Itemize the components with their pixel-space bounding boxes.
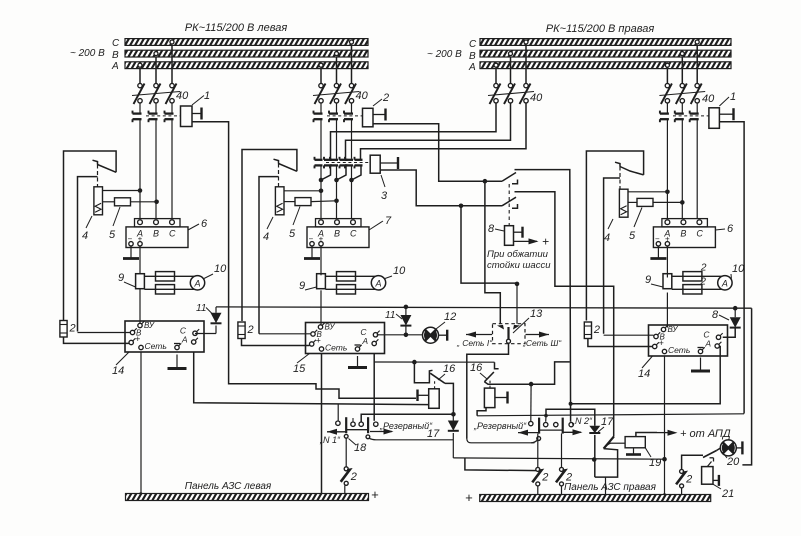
terminal + of box 14 xyxy=(653,344,657,348)
dashed armature link 16 left xyxy=(434,381,436,389)
stand switch 8 top xyxy=(502,173,516,182)
shunt loop wires xyxy=(325,276,383,289)
arrow Резервный left (right switch) xyxy=(518,432,538,434)
riser circle3 to lamp rail xyxy=(361,414,452,422)
dashed linkage of contactor 3 xyxy=(326,162,370,164)
node: relay4/phaseA junction xyxy=(138,188,143,193)
svg-text:„ Сеть I“: „ Сеть I“ xyxy=(456,338,493,348)
wire switch to lamp 20 xyxy=(717,448,721,451)
terminals A B C of box 6 xyxy=(665,220,670,225)
resistor 5 left xyxy=(103,201,115,203)
main box 6 xyxy=(653,227,715,248)
main box 7 xyxy=(307,227,369,248)
svg-text:11: 11 xyxy=(196,303,206,314)
breaker linkage bar xyxy=(132,92,180,96)
label 4 (right) xyxy=(608,219,613,229)
wire fuse9R to ВУ box14R xyxy=(666,293,668,328)
svg-text:+: + xyxy=(542,235,549,249)
wire А box15 down to switch 18 and relay 16 xyxy=(373,354,375,421)
svg-text:5: 5 xyxy=(289,228,296,240)
node diode11C on rail xyxy=(404,305,409,310)
label 10 with pointer xyxy=(385,276,392,279)
tap wire phase C from bus xyxy=(695,40,699,44)
plug of lamp 12 xyxy=(439,334,448,336)
svg-text:11: 11 xyxy=(385,310,395,321)
fuse top (2A) xyxy=(683,272,702,281)
label 4 (left) xyxy=(86,216,92,228)
svg-text:А: А xyxy=(374,278,381,288)
transformer box 6: terminal strip xyxy=(662,219,708,227)
wire Сеть box14-left down to panel xyxy=(140,352,142,493)
node relay4R junction xyxy=(665,190,670,195)
wire loop bottom and right side xyxy=(595,449,618,478)
wire L-contact to relay 21 xyxy=(707,462,711,467)
plug symbol of connector 1 right xyxy=(719,113,733,115)
relay 21 xyxy=(702,467,713,485)
bus bar A left (hatched) xyxy=(125,62,368,69)
wire blade to relay 19 xyxy=(610,442,625,444)
svg-text:10: 10 xyxy=(732,263,745,275)
svg-text:~ 200 В: ~ 200 В xyxy=(427,49,462,60)
pivot feed wire 16 left xyxy=(414,362,432,383)
label 10 with pointer xyxy=(204,274,213,279)
svg-text:13: 13 xyxy=(530,308,543,320)
wire loop left vertical below diode 17R xyxy=(594,435,596,477)
tap wire phase C from bus xyxy=(524,40,528,44)
relay 8 (При обжатии) xyxy=(505,226,514,246)
toggle 2 far right xyxy=(680,469,684,473)
label 9 with pointer xyxy=(124,282,136,287)
node diode 8 on rail xyxy=(733,306,738,311)
svg-text:16: 16 xyxy=(470,362,483,374)
label 10 with pointer xyxy=(730,274,732,279)
wire blade 16R to selector wire xyxy=(484,362,569,384)
ground below − of box 14 left xyxy=(176,355,178,369)
wire relay4C to phase junction xyxy=(284,190,321,192)
svg-text:2: 2 xyxy=(247,324,254,336)
contactor coil box 3 xyxy=(370,155,380,173)
node on reserve rail xyxy=(544,414,548,418)
ground below box 7 xyxy=(311,246,313,259)
riser circle2R to reserve rail xyxy=(545,416,547,422)
node Сеть14R at panel xyxy=(662,493,666,497)
terminal − of box 14 xyxy=(698,347,704,349)
terminal ВУ of box 14 xyxy=(661,327,665,331)
switch S center unit xyxy=(279,164,297,172)
tap wire phase B from bus xyxy=(154,52,158,56)
frame wire left unit xyxy=(64,151,117,321)
wire to В terminal box14 left xyxy=(78,332,131,334)
svg-text:4: 4 xyxy=(82,230,88,242)
svg-text:ВУ: ВУ xyxy=(325,323,336,332)
signal lamp 20 xyxy=(720,440,736,456)
tap wire phase A from bus xyxy=(494,63,498,67)
svg-text:А: А xyxy=(193,278,200,288)
node on circle4R riser xyxy=(569,402,573,406)
wire + of box6R down to fuse block 9 right xyxy=(666,246,668,278)
contactor contacts L1 (3 phases) xyxy=(139,103,141,114)
svg-text:4: 4 xyxy=(604,232,610,244)
dashed linkage L1 to connector 1 xyxy=(146,115,181,117)
terminal Сеть of box 14 xyxy=(139,345,143,349)
arrow + от АПД xyxy=(636,433,657,437)
label 19 xyxy=(645,448,651,457)
svg-text:Сеть: Сеть xyxy=(325,343,347,353)
selector crossbar xyxy=(346,429,368,431)
main box 6 xyxy=(126,227,188,248)
selector switch contacts (circles) xyxy=(529,421,533,425)
svg-text:10: 10 xyxy=(214,263,227,275)
node resistor5R junction xyxy=(680,200,685,205)
transformer box 7: terminal strip xyxy=(316,219,362,227)
svg-text:+ от АПД: + от АПД xyxy=(680,428,731,440)
bus bar A right (hatched) xyxy=(480,62,731,69)
label 3 xyxy=(381,175,385,187)
svg-text:10: 10 xyxy=(393,265,406,277)
tap wire phase C from bus xyxy=(170,40,174,44)
svg-text:4: 4 xyxy=(263,231,269,243)
ground below box 6 xyxy=(130,246,132,259)
tap wire phase B from bus xyxy=(335,52,339,56)
terminal ВУ of box 15 xyxy=(318,325,322,329)
riser circle2 xyxy=(352,418,354,422)
svg-text:2: 2 xyxy=(69,323,76,335)
label 6 with pointer xyxy=(188,224,199,230)
fuse block 9 xyxy=(317,274,326,289)
svg-text:1: 1 xyxy=(204,90,210,102)
resistor 5 center xyxy=(284,201,295,203)
node: resistor5/phaseB junction xyxy=(154,200,159,205)
bridge to diode 17 right xyxy=(546,409,595,426)
dashed linkage R2 to connector 1 right xyxy=(673,115,709,117)
svg-text:С: С xyxy=(169,229,176,239)
node resistor5C junction xyxy=(334,199,339,204)
svg-text:А: А xyxy=(468,62,476,73)
fuse bottom (2A) xyxy=(337,285,356,294)
relay 4 center xyxy=(275,187,284,215)
fuse 2 (panel feed) xyxy=(238,322,245,339)
svg-text:40: 40 xyxy=(530,92,543,104)
terminal В of box 14 xyxy=(654,334,658,338)
ground below − of box 15 xyxy=(357,356,359,368)
wire С box14-left to diode 11 xyxy=(195,333,216,335)
toggle blade of Сеть III switch xyxy=(604,437,614,449)
label 9 with pointer xyxy=(651,284,663,287)
svg-text:21: 21 xyxy=(721,488,734,500)
switch S right unit xyxy=(620,167,644,175)
svg-text:С: С xyxy=(350,229,357,239)
hook contact below bar1 of switch 18 right xyxy=(537,437,541,441)
fuse 2 (panel feed) xyxy=(60,321,67,338)
svg-text:В: В xyxy=(469,51,476,62)
pivot feed riser 16 right xyxy=(495,362,499,369)
wire resistor5 to phase B junction xyxy=(131,201,157,203)
svg-text:2: 2 xyxy=(541,471,548,483)
wire loop to right panel xyxy=(605,477,607,494)
label 14 with pointer xyxy=(116,352,129,365)
svg-text:5: 5 xyxy=(109,229,116,241)
wire fuse2 to + terminal box14 left xyxy=(64,337,130,343)
arrow Сеть III (right) xyxy=(526,334,550,336)
fuse top (2A) xyxy=(156,272,175,281)
svg-text:А: А xyxy=(181,335,188,345)
svg-text:6: 6 xyxy=(727,223,734,235)
svg-text:„N 1“: „N 1“ xyxy=(319,435,341,445)
arrow N1 left xyxy=(327,431,347,433)
tap wire phase C from bus xyxy=(350,40,354,44)
wire А box14-left down and right to switch 18 and relay 16L coil xyxy=(194,352,429,405)
ground below box 6 xyxy=(657,246,659,259)
svg-text:С: С xyxy=(696,229,703,239)
transformer box 6: terminal strip xyxy=(135,219,181,227)
reserve wire from diode 17L to Сеть riser right xyxy=(453,458,664,459)
bus bar C left (hatched) xyxy=(125,39,368,46)
contactor contacts R2 xyxy=(666,103,668,114)
node relay16L on rail xyxy=(451,412,456,417)
diode 17 right xyxy=(589,426,600,433)
breaker linkage bar xyxy=(659,92,705,96)
svg-text:В: В xyxy=(334,229,340,239)
svg-text:+: + xyxy=(659,338,664,348)
node reserve wire on loop xyxy=(592,457,597,462)
crossover phase wires from right РК to contactor 3 xyxy=(331,103,497,160)
branch to toggle 2 right#1 xyxy=(465,458,539,471)
label 5 (center) xyxy=(293,207,300,226)
stand switch 8 bottom xyxy=(502,197,516,206)
svg-text:Сеть: Сеть xyxy=(668,345,690,355)
plug of relay 8 xyxy=(514,231,523,233)
svg-text:С: С xyxy=(112,38,120,49)
svg-text:А: А xyxy=(111,61,119,72)
hook contact below bar1 of switch 18 left xyxy=(344,434,348,438)
fuse bottom (2A) xyxy=(156,285,175,294)
wire С box14R up through diode 8 xyxy=(723,328,736,337)
wire switch pole to В terminal riser xyxy=(78,177,98,332)
node diode11C xyxy=(404,333,409,338)
svg-text:40: 40 xyxy=(702,93,715,105)
ground below − of box 14 right xyxy=(700,358,702,372)
voltage regulator box 14 xyxy=(649,325,728,356)
selector switch 13 (dashed box) xyxy=(493,324,526,344)
ammeter A xyxy=(190,276,204,290)
wire from connector 1 right to +27V rail xyxy=(719,122,744,414)
terminal ВУ of box 14 xyxy=(138,323,142,327)
bus bar B left (hatched) xyxy=(125,50,368,57)
wire + of box7 down to fuse block 9 center xyxy=(320,246,322,275)
fuse block 9 xyxy=(136,274,145,289)
svg-text:14: 14 xyxy=(112,365,124,377)
fuse 2 (panel feed) xyxy=(584,322,591,339)
label 2 (connector center) xyxy=(373,99,382,106)
breaker linkage bar xyxy=(313,92,360,96)
node: relay 16 left pivot feed xyxy=(412,360,417,365)
wire switch8bottom to right drop xyxy=(515,192,614,437)
terminal Сеть of box 15 xyxy=(319,347,323,351)
svg-text:6: 6 xyxy=(201,218,208,230)
wire С box15 to lamp 12 xyxy=(377,334,423,336)
label 21 xyxy=(713,484,721,489)
ground below relay 19 xyxy=(633,448,635,455)
label 1 (right) xyxy=(719,97,729,106)
svg-text:2: 2 xyxy=(593,324,600,336)
diode 11 left xyxy=(211,313,222,324)
wire blade 16L to +rail node xyxy=(445,383,453,414)
wire resistor5C to phase junction xyxy=(311,200,337,203)
wire switch8top to right drop and circle4 of 18R xyxy=(515,170,571,422)
tap wire phase A from bus xyxy=(665,63,669,67)
label 4 (center) xyxy=(267,217,273,229)
svg-text:18: 18 xyxy=(354,442,367,454)
terminals A B C of box 6 xyxy=(138,220,143,225)
svg-text:8: 8 xyxy=(488,223,495,235)
svg-text:+: + xyxy=(316,336,321,346)
label 6 with pointer xyxy=(715,229,725,230)
bus bar C right (hatched) xyxy=(480,39,731,46)
wire to В box14R xyxy=(604,334,654,336)
wire fuse9 left to ВУ terminal box 14 xyxy=(139,289,141,324)
armature blade 16 right xyxy=(484,372,494,382)
reserve rail to lamp20 riser (right) xyxy=(477,414,744,416)
relay 4 right xyxy=(619,189,628,217)
svg-text:стойки шасси: стойки шасси xyxy=(487,260,551,271)
svg-text:В: В xyxy=(680,229,686,239)
plug symbol of connector 2 xyxy=(373,114,386,116)
terminal + of box 15 xyxy=(310,342,314,346)
panel АЗС правая (hatched bar) xyxy=(480,495,711,502)
connector box 1 left xyxy=(181,106,193,127)
switch S left unit xyxy=(98,165,117,173)
label 7 with pointer xyxy=(369,221,383,230)
armature blade 16 left xyxy=(430,373,445,383)
selector switch bars xyxy=(538,418,540,434)
svg-text:+: + xyxy=(465,490,473,505)
tap wire phase B from bus xyxy=(509,52,513,56)
svg-text:+: + xyxy=(371,487,379,502)
svg-text:А: А xyxy=(721,278,728,288)
svg-text:~ 200 В: ~ 200 В xyxy=(70,48,105,59)
shunt loop wires xyxy=(672,276,730,289)
svg-text:2: 2 xyxy=(685,473,692,485)
label 9 with pointer xyxy=(305,287,317,290)
arrow Резервный right xyxy=(370,431,392,433)
plug of relay 16 right xyxy=(495,397,507,399)
riser from circle1 of switch18R xyxy=(530,384,532,422)
svg-text:7: 7 xyxy=(385,215,392,227)
svg-text:2: 2 xyxy=(382,92,389,104)
branch wire А15 to relays 16 xyxy=(374,361,494,363)
svg-text:„Сеть Ш“: „Сеть Ш“ xyxy=(522,338,562,348)
switch of lamp 20 xyxy=(703,451,717,458)
wire from switch 13 pivot to reserve bus xyxy=(467,343,509,438)
wire fuse2R to + box14R xyxy=(588,339,653,347)
connector box 1 right xyxy=(709,108,720,129)
node at 484.9/181 xyxy=(483,179,488,184)
hook contact below bar2 of switch 18 left xyxy=(366,435,370,439)
relay 4 left xyxy=(94,187,103,215)
selector switch bars xyxy=(345,417,347,433)
terminal − of box 15 xyxy=(355,344,361,346)
selector crossbar xyxy=(539,429,563,431)
wire + of box6 down to fuse block 9 left xyxy=(139,246,141,274)
plug of relay 21 xyxy=(713,479,719,481)
svg-text:Панель АЗС левая: Панель АЗС левая xyxy=(185,481,272,492)
diode 8 (right) xyxy=(730,317,741,327)
svg-text:При обжатии: При обжатии xyxy=(487,249,549,260)
svg-text:40: 40 xyxy=(356,90,369,102)
label 5 (left) xyxy=(113,207,120,226)
terminal − of box 14 xyxy=(174,343,180,345)
svg-text:5: 5 xyxy=(629,230,636,242)
wire to В box15 xyxy=(259,333,311,335)
wire fuse9C to ВУ box15 xyxy=(320,290,322,325)
terminal Сеть of box 14 xyxy=(662,349,666,353)
svg-text:Сеть: Сеть xyxy=(145,341,167,351)
svg-text:1: 1 xyxy=(730,91,736,103)
svg-text:„Резервный“: „Резервный“ xyxy=(379,421,433,431)
wire left drop from node 484.9/181 down xyxy=(485,181,500,324)
arrow + output of relay 8 xyxy=(508,241,510,245)
terminal + of box 14 xyxy=(129,340,133,344)
wire from node 461/206 down to switch13 right contact xyxy=(461,206,517,283)
connector box 2 (center) xyxy=(363,108,374,127)
wire Сеть box15 down to panel xyxy=(321,354,323,494)
wire switch pole to В riser (center) xyxy=(259,177,279,334)
toggle switch 2 on left panel xyxy=(345,438,347,467)
+27V rail riser from diode 11 left xyxy=(215,307,217,313)
wire toggle to lamp switch xyxy=(682,455,703,469)
wire from box 3 to stand switch 8 (bottom) xyxy=(380,170,502,206)
svg-text:40: 40 xyxy=(176,90,189,102)
wire coil 16R bottom to reserve rail xyxy=(477,408,486,416)
fuse block 9 xyxy=(663,274,672,289)
contactor contacts L2 (3 phases) xyxy=(320,103,322,114)
svg-text:8: 8 xyxy=(712,309,719,321)
shunt loop wires xyxy=(144,276,202,289)
svg-text:19: 19 xyxy=(649,457,661,469)
diode 11 center xyxy=(405,326,407,335)
diode 17 left xyxy=(452,414,454,420)
svg-text:17: 17 xyxy=(601,416,614,428)
node: circle1R riser on selector wire xyxy=(529,382,534,387)
label 14 with pointer xyxy=(642,356,653,368)
svg-text:14: 14 xyxy=(638,368,650,380)
+27V DC rail (long horizontal) xyxy=(216,307,752,308)
voltage regulator box 14 xyxy=(125,321,204,352)
plug of relay 16 left xyxy=(419,394,429,396)
tap wire phase A from bus xyxy=(138,63,142,67)
svg-text:20: 20 xyxy=(726,456,740,468)
wire relay4 to phase A junction xyxy=(103,190,141,192)
label 5 (right) xyxy=(634,208,642,228)
svg-text:Панель АЗС правая: Панель АЗС правая xyxy=(564,482,657,493)
svg-text:2: 2 xyxy=(350,471,357,483)
ammeter A xyxy=(371,276,385,290)
wire right edge drop to lamp20 area xyxy=(742,308,751,465)
wire А box14R down to reserve area xyxy=(571,346,721,404)
svg-text:В: В xyxy=(112,50,119,61)
wire from connector 2 to stand switch 8 (top) xyxy=(373,124,502,182)
svg-text:17: 17 xyxy=(427,428,440,440)
fuse bottom (2A) xyxy=(683,285,702,294)
frame wire center unit xyxy=(242,150,297,322)
arrow N2 right xyxy=(563,431,581,433)
wire switch pole right to В riser xyxy=(604,178,620,334)
terminals A B C of box 7 xyxy=(319,220,324,225)
svg-text:С: С xyxy=(469,39,477,50)
panel АЗС левая (hatched bar) xyxy=(126,494,369,501)
svg-text:„Резервный“: „Резервный“ xyxy=(473,421,527,431)
tap wire phase A from bus xyxy=(319,63,323,67)
